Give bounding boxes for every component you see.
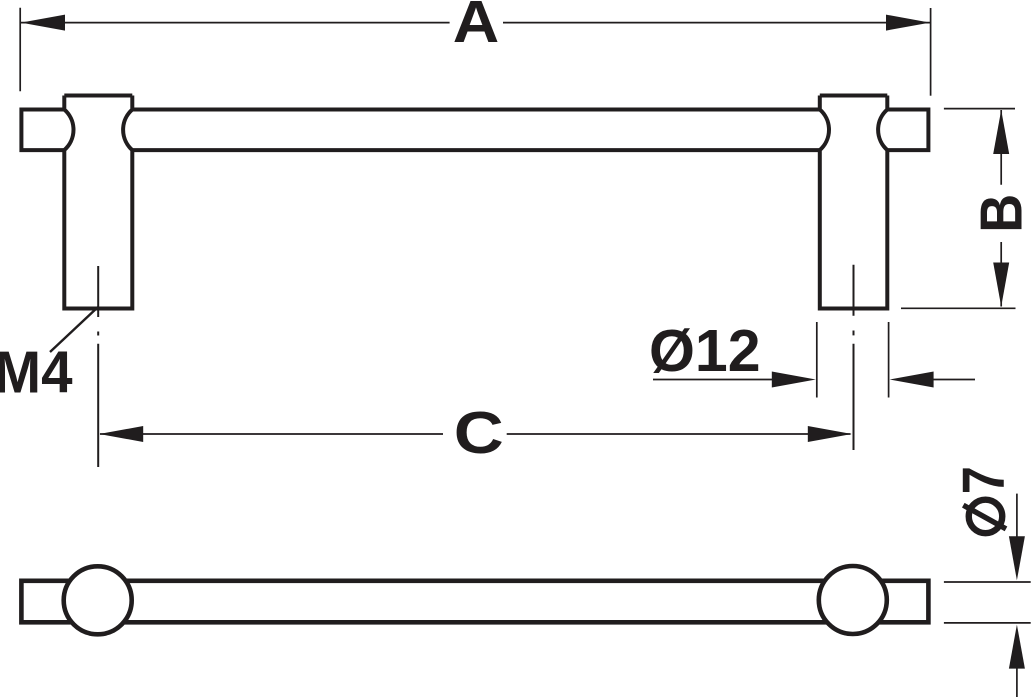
label D7 diameter symbol slash [963, 505, 1006, 529]
dimension D7 top extension line [944, 581, 1031, 583]
dimension A line [21, 22, 930, 24]
dimension D12 left line [653, 379, 790, 381]
right post centerline [853, 265, 855, 450]
dimension B line [1000, 110, 1002, 307]
bottom view bar [21, 581, 928, 623]
dimension C right arrowhead [808, 426, 852, 442]
dimension A right arrowhead [886, 15, 930, 31]
dimension D12 right extension line [888, 322, 890, 398]
svg-text:7: 7 [951, 466, 1017, 494]
bottom view right post circle [819, 566, 887, 634]
dimension A right extension line [930, 8, 932, 96]
dimension B bottom arrowhead [993, 263, 1009, 307]
handle left screw stub (top view) [21, 110, 64, 151]
handle bar (top view) [132, 110, 820, 151]
dimension A left extension line [19, 8, 21, 92]
dimension D12 left extension line [816, 322, 818, 398]
dimension B top extension line [944, 108, 1015, 110]
left post centerline [97, 266, 99, 467]
svg-text:C: C [454, 400, 504, 466]
bottom view left post circle [64, 566, 132, 634]
handle right post (top view) [820, 96, 888, 309]
dimension D12 left arrowhead [772, 372, 816, 388]
dimension D7 upper leader line [1016, 494, 1018, 540]
svg-text:B: B [969, 194, 1033, 233]
dimension D7 lower leader line [1016, 666, 1018, 697]
dimension B top arrowhead [993, 110, 1009, 154]
dimension C left arrowhead [99, 426, 143, 442]
M4 leader line [50, 307, 98, 352]
dimension A left arrowhead [21, 15, 65, 31]
dimension B bottom extension line [901, 307, 1016, 309]
dimension D12 right line [915, 379, 975, 381]
handle left post (top view) [64, 96, 132, 309]
svg-text:M4: M4 [0, 340, 73, 406]
svg-text:Ø12: Ø12 [649, 318, 761, 384]
dimension D7 bottom extension line [944, 622, 1031, 624]
handle right screw stub (top view) [887, 110, 928, 151]
dimension C line [100, 433, 851, 435]
dimension D7 top arrowhead [1009, 536, 1025, 580]
dimension D12 right arrowhead [890, 372, 934, 388]
dimension D7 bottom arrowhead [1009, 625, 1025, 669]
label D7 diameter symbol circle [969, 500, 1003, 534]
svg-text:A: A [453, 0, 500, 55]
